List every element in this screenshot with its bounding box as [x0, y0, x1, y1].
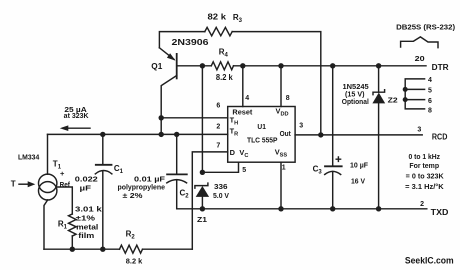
temperature input arrow T — [19, 183, 30, 185]
svg-text:2: 2 — [420, 201, 424, 208]
svg-text:For temp: For temp — [409, 163, 439, 170]
svg-text:±1%: ±1% — [76, 213, 96, 222]
svg-text:10 µF: 10 µF — [350, 161, 368, 170]
svg-text:6: 6 — [216, 103, 220, 110]
wire emitter riser and R3 left segment — [159, 32, 204, 48]
capacitor C3 bottom lead — [332, 172, 334, 209]
svg-text:16 V: 16 V — [351, 177, 365, 186]
wire Out pin 3 to RCD — [295, 134, 422, 136]
svg-text:20: 20 — [415, 56, 425, 63]
wire pin 8 stub — [280, 66, 282, 107]
svg-text:polypropylene: polypropylene — [118, 184, 166, 191]
svg-text:Z2: Z2 — [388, 95, 398, 104]
node R3 to Out junction — [318, 132, 323, 137]
wire LM334 top riser — [47, 134, 49, 174]
svg-text:T: T — [11, 180, 16, 189]
wire threshold TH pin 6 — [161, 117, 228, 119]
current arrow 25uA — [67, 127, 91, 129]
wire bottom left rail — [44, 248, 120, 250]
node C2 top junction — [174, 132, 179, 137]
node collector-TR junction — [159, 132, 164, 137]
node DB25 pin5 junction — [403, 87, 408, 92]
capacitor C3 top lead — [332, 66, 334, 166]
wire R2 to riser corner — [143, 248, 193, 250]
svg-text:2N3906: 2N3906 — [172, 38, 210, 47]
svg-text:LM334: LM334 — [18, 152, 40, 161]
capacitor C2 plates — [167, 173, 187, 175]
svg-text:= 0 to 323K: = 0 to 323K — [406, 174, 444, 181]
node C3 top junction — [330, 63, 335, 68]
svg-text:4: 4 — [245, 95, 249, 102]
wire Z2 anode lead — [378, 103, 380, 208]
node Z2 bottom junction — [376, 206, 381, 211]
node R4-pin4 junction — [240, 63, 245, 68]
DB25 connector brace — [401, 37, 438, 48]
zener Z2 triangle — [372, 93, 385, 104]
DB25 pins 4-5-6-8 bar — [405, 79, 424, 109]
wire R4 to DTR pin 20 — [234, 65, 427, 67]
svg-text:3: 3 — [417, 126, 421, 133]
wire R3 right segment down to Out line — [232, 32, 321, 135]
capacitor C1 bottom lead — [102, 171, 104, 249]
wire R1 bottom lead — [71, 236, 73, 249]
node pin1 ground junction — [278, 206, 283, 211]
node Z2 top junction — [376, 63, 381, 68]
svg-text:TLC 555P: TLC 555P — [247, 136, 278, 145]
node R1 bottom junction — [70, 247, 75, 252]
svg-text:DB25S (RS-232): DB25S (RS-232) — [396, 22, 455, 31]
IC U1 TLC555P box — [228, 107, 295, 163]
resistor R4 — [211, 62, 233, 70]
wire pin 4 stub — [242, 66, 244, 107]
wire Q1 base to R4 — [177, 65, 212, 67]
zener Z1 triangle — [196, 186, 209, 197]
svg-text:RCD: RCD — [432, 132, 448, 141]
svg-text:± 2%: ± 2% — [123, 193, 143, 200]
svg-text:R2: R2 — [126, 230, 136, 241]
svg-text:1N5245: 1N5245 — [343, 84, 369, 91]
wire Z2 top lead — [378, 66, 380, 92]
svg-text:µF: µF — [80, 183, 92, 192]
svg-text:C1: C1 — [114, 164, 124, 175]
svg-text:0 to 1 kHz: 0 to 1 kHz — [409, 154, 441, 161]
transistor Q1 base bar — [176, 54, 178, 79]
svg-text:D: D — [230, 148, 236, 157]
wire LM334 top line to trigger TR pin 2 — [48, 133, 228, 135]
svg-text:C2: C2 — [180, 188, 190, 199]
node VC junction — [200, 170, 205, 175]
transistor Q1 collector — [161, 76, 177, 135]
svg-text:SeekIC.com: SeekIC.com — [405, 256, 454, 266]
svg-text:8.2 k: 8.2 k — [216, 73, 233, 82]
svg-text:R1: R1 — [58, 219, 68, 230]
wire Z1 anode to ground line — [201, 197, 203, 209]
svg-text:film: film — [78, 231, 95, 240]
svg-text:U1: U1 — [257, 122, 266, 131]
svg-text:5: 5 — [242, 167, 246, 174]
svg-text:4: 4 — [428, 77, 432, 84]
resistor R1 — [69, 214, 77, 236]
svg-text:Q1: Q1 — [151, 62, 163, 71]
svg-text:R4: R4 — [219, 48, 229, 59]
svg-text:5.0 V: 5.0 V — [213, 191, 230, 200]
node C1 top junction — [100, 132, 105, 137]
resistor R3 — [205, 27, 232, 35]
svg-text:82 k: 82 k — [208, 13, 227, 22]
transistor Q1 emitter with arrow — [159, 48, 174, 60]
svg-text:Ref: Ref — [60, 182, 71, 189]
capacitor C2 top lead — [176, 134, 178, 174]
capacitor C3 plates — [325, 165, 342, 167]
svg-text:0.01 µF: 0.01 µF — [134, 174, 166, 183]
wire Ref lead to R1 — [57, 187, 73, 214]
node collector-TH junction — [159, 115, 164, 120]
svg-text:8: 8 — [428, 107, 432, 114]
wire VSS pin 1 stub — [280, 162, 282, 209]
zener Z1 cathode bar — [195, 183, 208, 188]
node Z1 anode junction — [200, 206, 205, 211]
svg-text:at 323K: at 323K — [64, 113, 89, 120]
node DB25 pin6 junction — [403, 97, 408, 102]
capacitor C1 plates — [96, 164, 112, 166]
svg-text:Reset: Reset — [232, 109, 253, 116]
svg-text:Optional: Optional — [342, 99, 369, 106]
wire LM334 bottom riser — [44, 200, 48, 249]
node pin8 junction — [278, 63, 283, 68]
svg-text:DTR: DTR — [432, 63, 449, 72]
wire control pin 5 L — [202, 162, 238, 172]
svg-text:6: 6 — [428, 98, 432, 105]
svg-text:Z1: Z1 — [197, 215, 208, 224]
zener Z2 cathode bar — [373, 90, 385, 95]
svg-text:C3: C3 — [313, 164, 323, 175]
svg-text:+: + — [60, 169, 65, 178]
svg-text:8.2 k: 8.2 k — [126, 257, 143, 266]
node base-VC junction — [200, 63, 205, 68]
svg-text:(15 V): (15 V) — [345, 91, 365, 98]
svg-text:5: 5 — [428, 88, 432, 95]
svg-text:TXD: TXD — [431, 208, 449, 217]
svg-text:R3: R3 — [233, 13, 243, 24]
svg-text:VC: VC — [239, 148, 248, 159]
svg-text:1: 1 — [282, 164, 286, 171]
resistor R2 — [120, 245, 143, 253]
LM334 T1 current source circles — [39, 174, 57, 192]
svg-text:= 3.1 Hz/°K: = 3.1 Hz/°K — [405, 183, 444, 191]
wire VC column from base node down — [201, 66, 203, 173]
svg-text:TH: TH — [230, 115, 239, 126]
svg-text:8: 8 — [286, 95, 290, 102]
svg-text:0.022: 0.022 — [75, 175, 98, 184]
svg-text:3: 3 — [299, 122, 303, 129]
svg-text:VDD: VDD — [276, 106, 289, 117]
svg-text:VSS: VSS — [275, 147, 288, 158]
wire discharge D pin to R2 riser — [192, 152, 227, 249]
node C1 bottom junction — [100, 247, 105, 252]
svg-text:7: 7 — [216, 143, 220, 150]
svg-text:2: 2 — [216, 124, 220, 131]
node C3 bottom junction — [330, 206, 335, 211]
svg-text:TR: TR — [230, 126, 239, 137]
svg-text:3.01 k: 3.01 k — [75, 204, 103, 213]
capacitor C2 bottom lead and ground rail to TXD — [177, 180, 427, 209]
svg-text:Out: Out — [280, 129, 292, 138]
capacitor C3 plus sign — [336, 157, 340, 161]
svg-text:336: 336 — [214, 182, 228, 191]
capacitor C1 top lead — [102, 134, 104, 164]
